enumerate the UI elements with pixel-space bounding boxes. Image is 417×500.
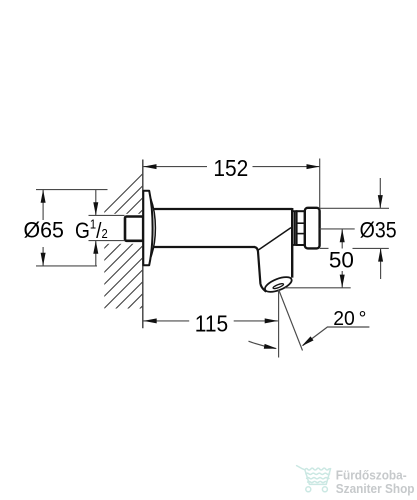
svg-text:152: 152: [213, 155, 248, 181]
white gap around inlet connector: [103, 214, 144, 244]
flange dome silhouette arc: [151, 199, 156, 258]
cart wheel right: [322, 487, 327, 492]
faucet body bottom line: [153, 246, 254, 248]
hex nut facet lines: [297, 222, 305, 224]
svg-text:50: 50: [329, 247, 354, 272]
retaining ring: [292, 211, 296, 245]
angle 20deg: arc with arrow to vertical line: [249, 341, 276, 348]
cart wheel left: [306, 487, 311, 492]
dim 50: dimension line: [341, 229, 343, 249]
dim 152: extension line right: [319, 159, 321, 209]
shop logo: cart icon: [297, 466, 331, 492]
wave line 1: [306, 473, 330, 474]
angle 20deg: vertical reference leader: [278, 290, 280, 358]
body end / spout right edge: [291, 208, 293, 278]
push knob cap: [305, 208, 320, 249]
spout outline: [255, 247, 266, 291]
spout crease line: [258, 228, 291, 251]
svg-text:115: 115: [195, 310, 228, 336]
dim 115: dimension line: [144, 320, 190, 322]
dim Ø65: dimension line: [42, 190, 44, 220]
wave line 2: [307, 478, 329, 479]
dim 152: dimension line: [143, 166, 207, 168]
svg-text:Ø65: Ø65: [24, 217, 64, 243]
cart basket with scalloped rim: [305, 468, 331, 484]
wall hatching: [100, 174, 143, 349]
dim Ø65: extension lines: [36, 189, 108, 191]
centerline extension (50 top reference): [320, 228, 355, 230]
cart handle: [297, 466, 305, 470]
hex nut: [297, 211, 305, 245]
wave line 3: [308, 481, 327, 482]
wall line: [142, 160, 144, 329]
svg-text:20 °: 20 °: [333, 308, 366, 330]
dim G1/2: dimension line with outside arrows: [95, 190, 97, 216]
dim Ø35: outside arrows: [379, 178, 381, 208]
angle 20deg: leader from label to slanted line: [303, 327, 370, 346]
svg-text:Szaniter Shop: Szaniter Shop: [336, 481, 415, 496]
faucet body top line: [153, 208, 292, 210]
svg-text:Ø35: Ø35: [360, 218, 397, 243]
outlet aerator slot: [273, 283, 285, 290]
angle 20deg: slanted spray line: [279, 290, 303, 351]
dim Ø35: extension lines: [320, 207, 389, 209]
dim 50: bottom extension line: [285, 287, 351, 289]
dim G1/2: extension lines: [89, 214, 125, 216]
G1/2 inlet connector (square): [125, 217, 143, 241]
svg-text:Fürdőszoba-: Fürdőszoba-: [336, 468, 407, 483]
spout outlet ellipse: [263, 274, 294, 295]
escutcheon flange: [143, 191, 152, 265]
